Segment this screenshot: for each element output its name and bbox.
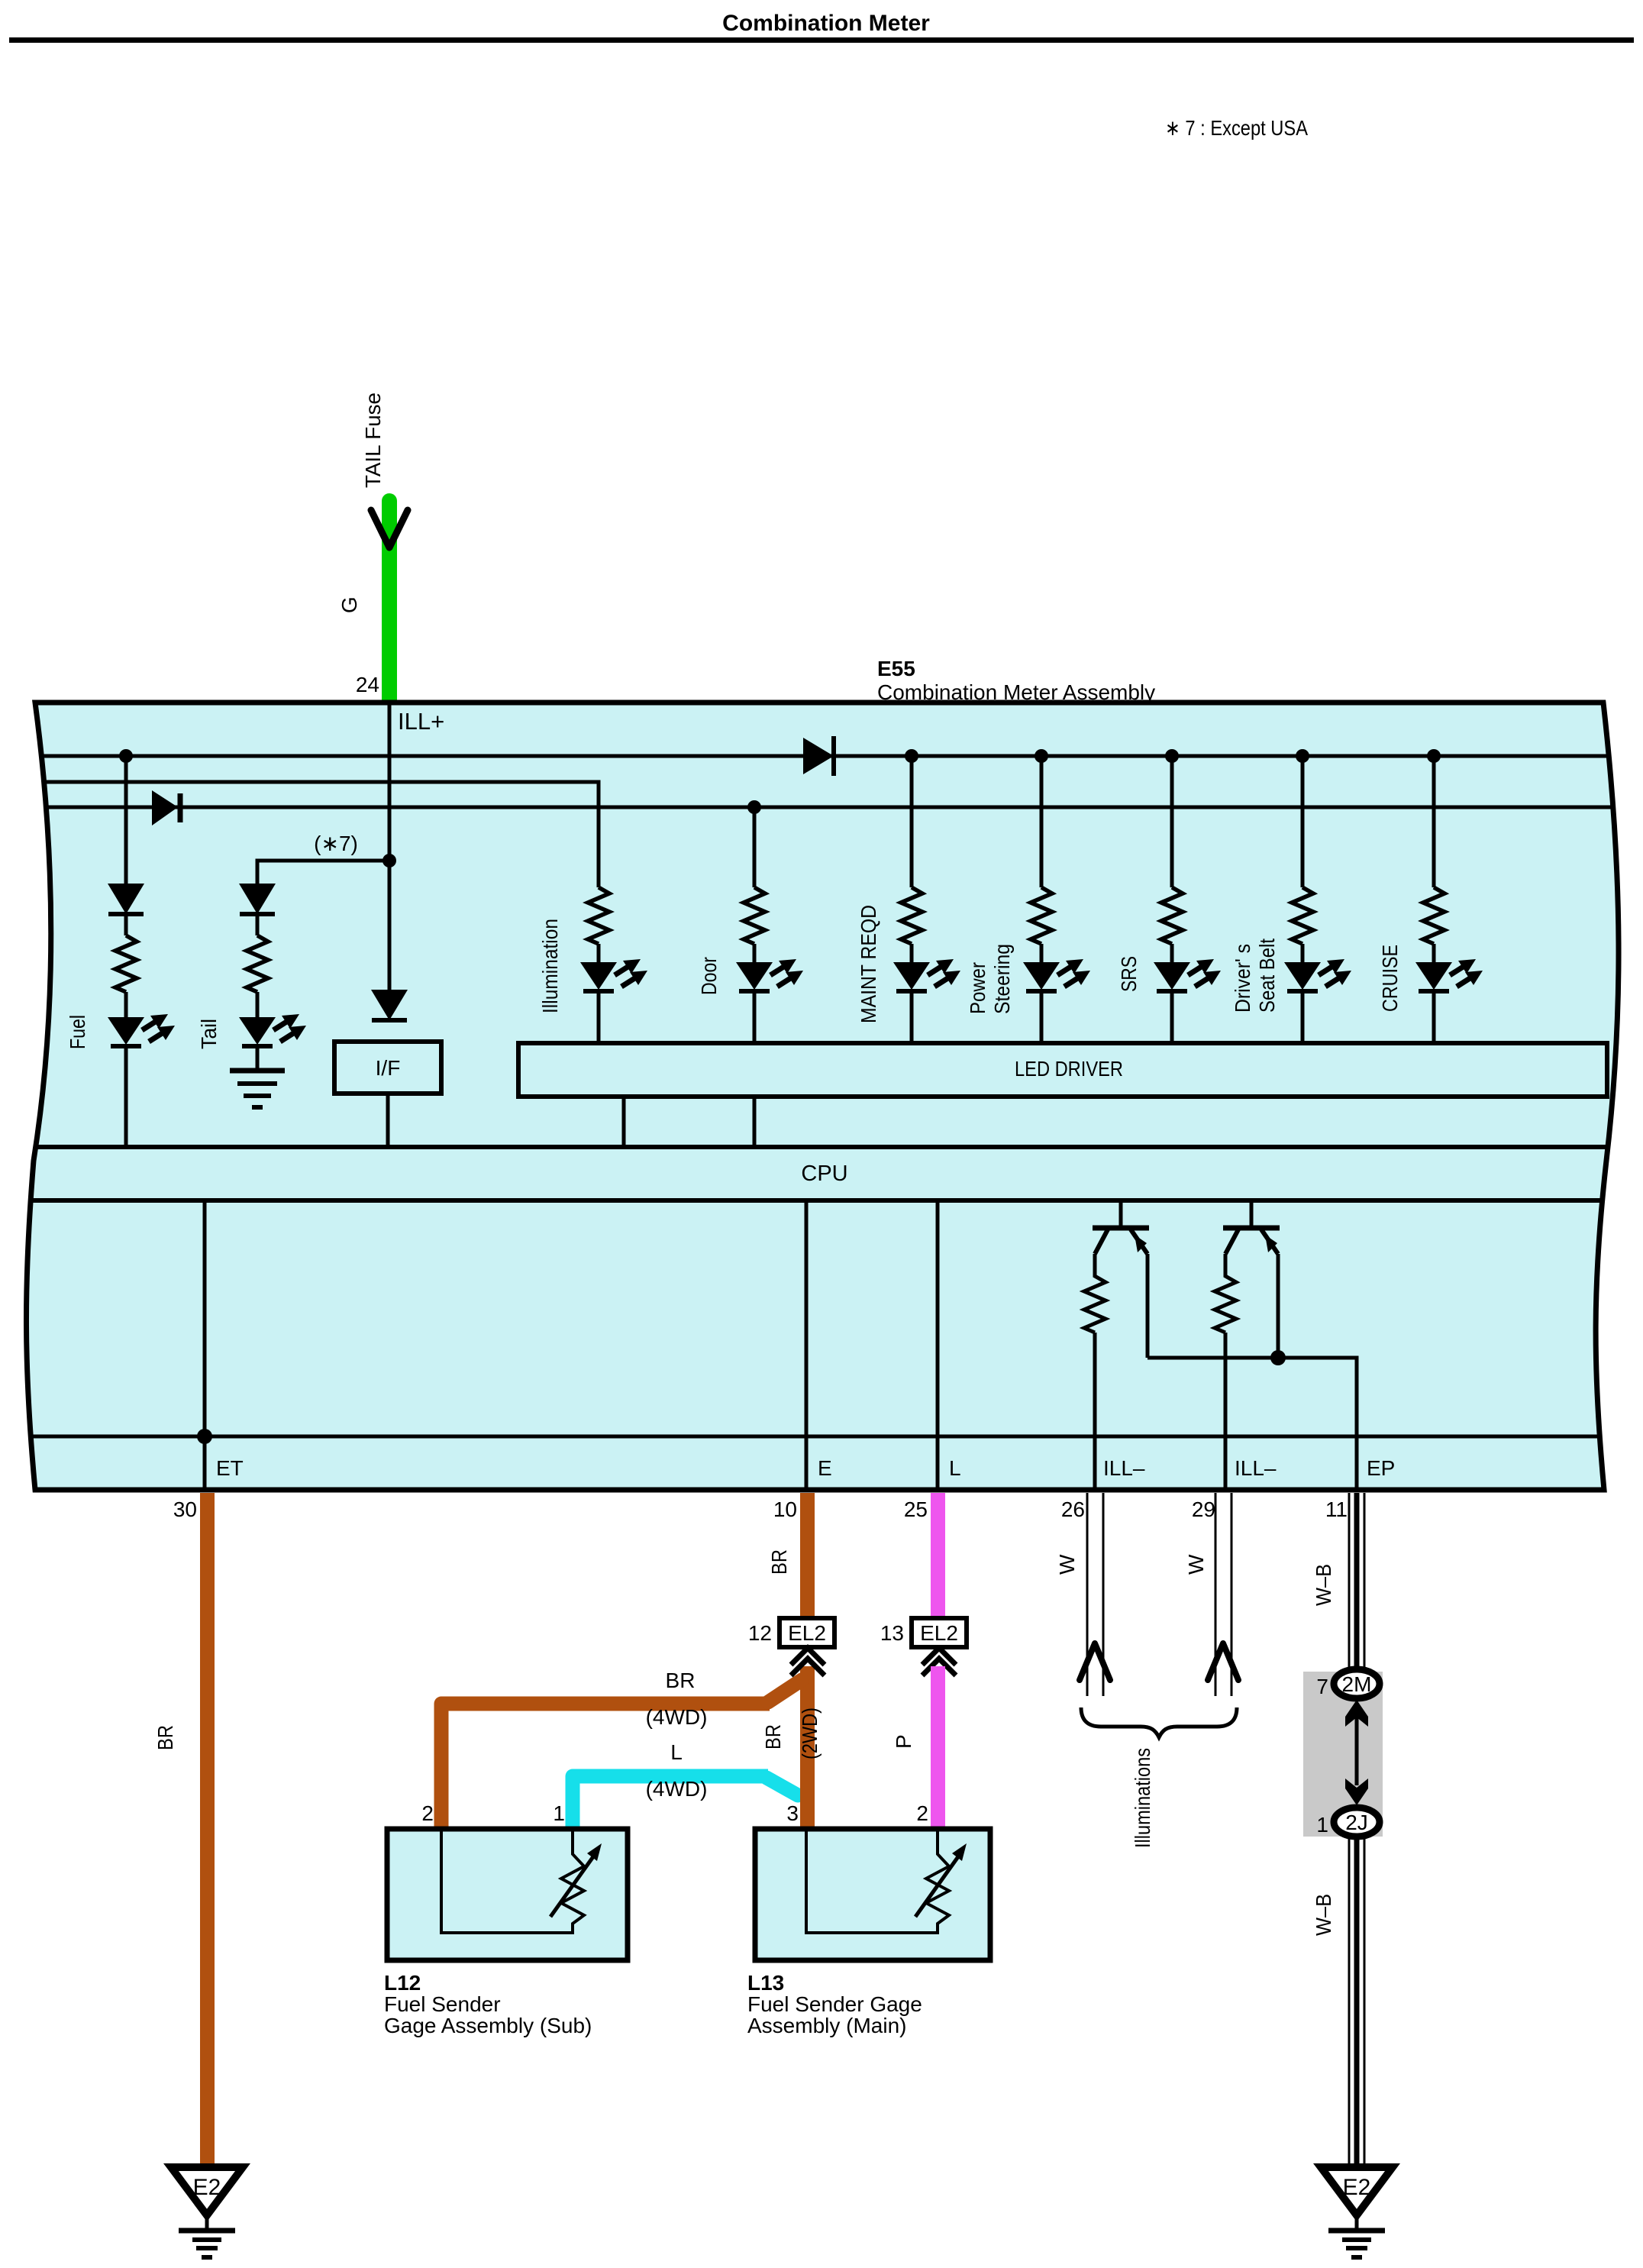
svg-text:Door: Door xyxy=(697,957,721,995)
wire ILL- 29 vertical xyxy=(1224,1333,1228,1490)
wire power-steering chain top xyxy=(1040,756,1044,887)
svg-text:30: 30 xyxy=(173,1497,197,1521)
resistor door xyxy=(744,887,765,944)
wire fuel mid xyxy=(124,914,128,935)
wire ET vertical xyxy=(203,1200,207,1490)
wire fuel mid2 xyxy=(124,992,128,1017)
wire BR below EL2 to L13 pin3 xyxy=(800,1666,815,1829)
svg-text:25: 25 xyxy=(904,1497,928,1521)
LED illumination xyxy=(580,959,647,991)
svg-text:Driver' s: Driver' s xyxy=(1231,944,1254,1013)
resistor cruise xyxy=(1423,887,1444,944)
resistor maint-reqd xyxy=(901,887,922,944)
wire I/F to CPU xyxy=(386,1094,390,1147)
resistor srs xyxy=(1161,887,1183,944)
node cruise tap xyxy=(1427,749,1441,763)
svg-text:2J: 2J xyxy=(1345,1811,1368,1834)
wire srs to LED driver xyxy=(1170,991,1174,1043)
wire LED driver out 2 xyxy=(753,1097,757,1147)
wire LED driver out 1 xyxy=(622,1097,626,1147)
svg-text:Assembly (Main): Assembly (Main) xyxy=(747,2014,906,2037)
svg-text:1: 1 xyxy=(1316,1813,1328,1837)
svg-text:G: G xyxy=(337,596,361,613)
wire door mid xyxy=(753,944,757,962)
svg-text:3: 3 xyxy=(786,1801,799,1825)
svg-text:(4WD): (4WD) xyxy=(646,1777,708,1801)
svg-text:Gage Assembly (Sub): Gage Assembly (Sub) xyxy=(384,2014,592,2037)
diode D1 on bus line 3 xyxy=(152,790,180,825)
wire bus line 3 xyxy=(29,806,1617,809)
wire cruise mid xyxy=(1432,944,1436,962)
wire fuel chain top xyxy=(124,756,128,884)
wire seat-belt to LED driver xyxy=(1301,991,1305,1043)
svg-text:BR: BR xyxy=(666,1669,696,1692)
wire power-steering mid xyxy=(1040,944,1044,962)
svg-text:Combination Meter: Combination Meter xyxy=(722,11,930,36)
svg-text:Fuel: Fuel xyxy=(66,1015,89,1049)
svg-text:ILL+: ILL+ xyxy=(398,708,444,735)
wire ILL+ vertical xyxy=(388,703,392,990)
svg-text:CRUISE: CRUISE xyxy=(1378,945,1402,1012)
svg-text:P: P xyxy=(892,1734,915,1749)
svg-text:Fuel Sender Gage: Fuel Sender Gage xyxy=(747,1992,922,2016)
connector box 2M/2J (gray) xyxy=(1303,1672,1383,1837)
wire Q1 emitter down xyxy=(1146,1254,1150,1358)
variable resistor L12 xyxy=(441,1829,602,1933)
connector oval 2M xyxy=(1334,1669,1380,1698)
svg-text:(2WD): (2WD) xyxy=(798,1707,821,1759)
LED maint-reqd xyxy=(893,959,960,991)
ground E2 left xyxy=(171,2167,243,2257)
svg-text:24: 24 xyxy=(356,673,379,696)
svg-text:Fuel Sender: Fuel Sender xyxy=(384,1992,501,2016)
arrow W pin29 xyxy=(1208,1643,1238,1680)
ground E2 right xyxy=(1321,2167,1393,2257)
svg-text:7: 7 xyxy=(1316,1675,1328,1698)
wire seat-belt mid xyxy=(1301,944,1305,962)
wire G (green) from TAIL fuse to pin 24 xyxy=(382,493,397,703)
fuse arrow xyxy=(371,510,408,548)
wire seat-belt chain top xyxy=(1301,756,1305,887)
resistor fuel xyxy=(115,935,137,992)
svg-text:SRS: SRS xyxy=(1117,956,1141,992)
wire W-B pin11 to 2M xyxy=(1349,1493,1364,1674)
node door tap xyxy=(747,800,761,814)
svg-text:2M: 2M xyxy=(1342,1672,1372,1696)
wire srs mid xyxy=(1170,944,1174,962)
svg-text:ILL–: ILL– xyxy=(1103,1456,1145,1480)
svg-text:TAIL Fuse: TAIL Fuse xyxy=(361,393,385,488)
wire power-steering to LED driver xyxy=(1040,991,1044,1043)
wire P pin25 to EL2 xyxy=(931,1493,945,1618)
svg-text:E2: E2 xyxy=(193,2175,221,2200)
node power-steering tap xyxy=(1035,749,1048,763)
node srs tap xyxy=(1165,749,1179,763)
svg-text:ET: ET xyxy=(216,1456,244,1480)
wire BR pin10 to EL2 xyxy=(800,1493,815,1618)
svg-text:∗ 7 : Except USA: ∗ 7 : Except USA xyxy=(1165,116,1308,140)
LED seat-belt xyxy=(1284,959,1351,991)
LED power-steering xyxy=(1023,959,1090,991)
resistor illumination xyxy=(588,887,609,944)
svg-text:I/F: I/F xyxy=(376,1056,401,1080)
resistor Q2 collector xyxy=(1215,1254,1236,1333)
svg-text:CPU: CPU xyxy=(801,1161,847,1186)
ground tail xyxy=(230,1071,285,1107)
svg-text:2: 2 xyxy=(421,1801,434,1825)
wire bus line 2 xyxy=(29,782,599,887)
terminal band divider line xyxy=(23,1435,1611,1439)
wire W pin29 xyxy=(1215,1493,1231,1696)
wire between arrows xyxy=(1355,1717,1359,1785)
svg-text:13: 13 xyxy=(880,1621,904,1645)
resistor seat-belt xyxy=(1292,887,1313,944)
svg-text:(∗7): (∗7) xyxy=(314,832,358,855)
connector chevrons below EL2 pin12 xyxy=(791,1648,825,1675)
svg-text:E: E xyxy=(818,1456,832,1480)
wire BR pin30 to E2 xyxy=(200,1493,215,2167)
svg-text:29: 29 xyxy=(1192,1497,1215,1521)
node maint-reqd tap xyxy=(905,749,918,763)
svg-text:W: W xyxy=(1184,1554,1208,1575)
wire srs chain top xyxy=(1170,756,1174,887)
svg-text:Illuminations: Illuminations xyxy=(1131,1748,1154,1848)
wire Q2 emitter down xyxy=(1277,1254,1280,1358)
connector oval 2J xyxy=(1334,1808,1380,1837)
box L12 fuel sender gage (sub) xyxy=(387,1829,628,1960)
combination meter assembly box E55 xyxy=(26,703,1619,1490)
LED tail xyxy=(239,1014,306,1046)
CPU strip bottom line xyxy=(23,1198,1619,1203)
wire illumination to LED driver xyxy=(597,991,601,1043)
label Driver's Seat Belt xyxy=(1231,939,1279,1013)
svg-text:L: L xyxy=(670,1740,683,1764)
wire W pin26 xyxy=(1087,1493,1103,1696)
svg-text:Tail: Tail xyxy=(197,1019,221,1049)
svg-text:Illumination: Illumination xyxy=(538,919,562,1013)
resistor Q1 collector xyxy=(1084,1254,1106,1333)
connector EL2 pin12 xyxy=(780,1618,834,1647)
diode fuel xyxy=(108,884,144,914)
node ET junction xyxy=(197,1429,212,1444)
node seat-belt tap xyxy=(1296,749,1309,763)
brace illuminations xyxy=(1081,1707,1237,1737)
node (*7) junction xyxy=(383,854,396,867)
wire cruise chain top xyxy=(1432,756,1436,887)
svg-text:(4WD): (4WD) xyxy=(646,1705,708,1729)
resistor power-steering xyxy=(1031,887,1052,944)
svg-text:1: 1 xyxy=(553,1801,565,1825)
box I/F xyxy=(334,1042,441,1094)
svg-text:L12: L12 xyxy=(384,1971,421,1995)
wire P below EL2 to L13 pin2 xyxy=(931,1666,945,1829)
wire maint-reqd to LED driver xyxy=(910,991,914,1043)
svg-text:Power: Power xyxy=(966,962,989,1014)
wire emitter bus to EP xyxy=(1148,1358,1357,1490)
svg-text:LED DRIVER: LED DRIVER xyxy=(1015,1057,1123,1081)
svg-text:W: W xyxy=(1055,1554,1079,1575)
svg-text:2: 2 xyxy=(916,1801,928,1825)
wire cruise to LED driver xyxy=(1432,991,1436,1043)
wire maint-reqd chain top xyxy=(910,756,914,887)
variable resistor L13 xyxy=(806,1829,967,1933)
svg-text:E55: E55 xyxy=(877,657,915,680)
label Power Steering xyxy=(966,944,1014,1014)
svg-text:BR: BR xyxy=(761,1724,785,1749)
wire W-B 2J to E2 xyxy=(1349,1837,1364,2167)
svg-text:EL2: EL2 xyxy=(788,1621,826,1645)
wire BR 4WD branch xyxy=(441,1680,802,1829)
diode tail xyxy=(239,884,276,914)
wire L vertical xyxy=(936,1200,940,1490)
box LED DRIVER xyxy=(518,1043,1607,1097)
svg-text:26: 26 xyxy=(1061,1497,1085,1521)
svg-text:BR: BR xyxy=(153,1725,177,1750)
LED srs xyxy=(1154,959,1221,991)
svg-text:11: 11 xyxy=(1325,1497,1348,1521)
svg-text:E2: E2 xyxy=(1343,2175,1371,2200)
svg-text:Steering: Steering xyxy=(990,944,1014,1014)
wire tail mid xyxy=(256,914,260,935)
svg-text:W–B: W–B xyxy=(1312,1894,1335,1936)
wire door chain top xyxy=(753,807,757,887)
wire L 4WD (cyan) xyxy=(573,1776,798,1829)
diode D3 above I/F xyxy=(371,990,408,1020)
diode D2 on bus line 1 xyxy=(803,736,834,776)
svg-text:MAINT REQD: MAINT REQD xyxy=(857,905,880,1023)
wire (*7) branch xyxy=(257,861,389,884)
box L13 fuel sender gage (main) xyxy=(755,1829,990,1960)
svg-text:L13: L13 xyxy=(747,1971,784,1995)
svg-text:L: L xyxy=(949,1456,961,1480)
arrow up to 2M xyxy=(1345,1700,1368,1727)
wire E vertical xyxy=(805,1200,809,1490)
connector EL2 pin13 xyxy=(912,1618,967,1647)
arrow W pin26 xyxy=(1080,1643,1110,1680)
svg-text:12: 12 xyxy=(748,1621,772,1645)
resistor tail xyxy=(247,935,268,992)
svg-text:EL2: EL2 xyxy=(920,1621,958,1645)
wire maint-reqd mid xyxy=(910,944,914,962)
arrow down to 2J xyxy=(1345,1779,1368,1805)
wire tail mid2 xyxy=(256,992,260,1017)
svg-text:EP: EP xyxy=(1367,1456,1395,1480)
node emitter junction xyxy=(1270,1350,1286,1365)
label BR (2WD) rotated xyxy=(761,1707,821,1759)
LED door xyxy=(736,959,803,991)
transistor Q2 xyxy=(1223,1200,1280,1254)
svg-text:Seat Belt: Seat Belt xyxy=(1255,939,1279,1013)
LED cruise xyxy=(1415,959,1483,991)
svg-text:BR: BR xyxy=(767,1549,791,1575)
CPU strip top line xyxy=(23,1145,1619,1149)
wire ILL- 26 vertical xyxy=(1093,1333,1097,1490)
svg-text:W–B: W–B xyxy=(1312,1564,1335,1606)
wire bus line 1 xyxy=(29,754,1617,758)
wire fuel to CPU xyxy=(124,1046,128,1147)
title rule xyxy=(9,37,1634,43)
wire tail to ground xyxy=(256,1046,260,1071)
svg-text:ILL–: ILL– xyxy=(1235,1456,1277,1480)
transistor Q1 xyxy=(1093,1200,1149,1254)
node fuel tap xyxy=(119,749,133,763)
svg-text:10: 10 xyxy=(773,1497,797,1521)
wire door to LED driver xyxy=(753,991,757,1043)
connector chevrons below EL2 pin13 xyxy=(922,1648,956,1675)
wire illumination mid xyxy=(597,944,601,962)
LED fuel xyxy=(108,1014,175,1046)
